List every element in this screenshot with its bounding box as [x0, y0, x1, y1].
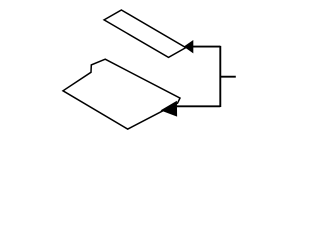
loop turn L1 (upper plate outline): [104, 10, 186, 57]
arrowhead (current direction into turn L2): [161, 101, 178, 117]
wire (bottom horizontal feed segment): [177, 105, 221, 107]
wire (feed stub to the right): [220, 76, 236, 78]
arrowhead (current direction into turn L1): [184, 40, 194, 53]
loop turn L2 (lower plate outline with winding step): [63, 59, 180, 129]
wire (top horizontal feed segment): [193, 46, 221, 48]
wire (right vertical bus): [219, 46, 221, 107]
